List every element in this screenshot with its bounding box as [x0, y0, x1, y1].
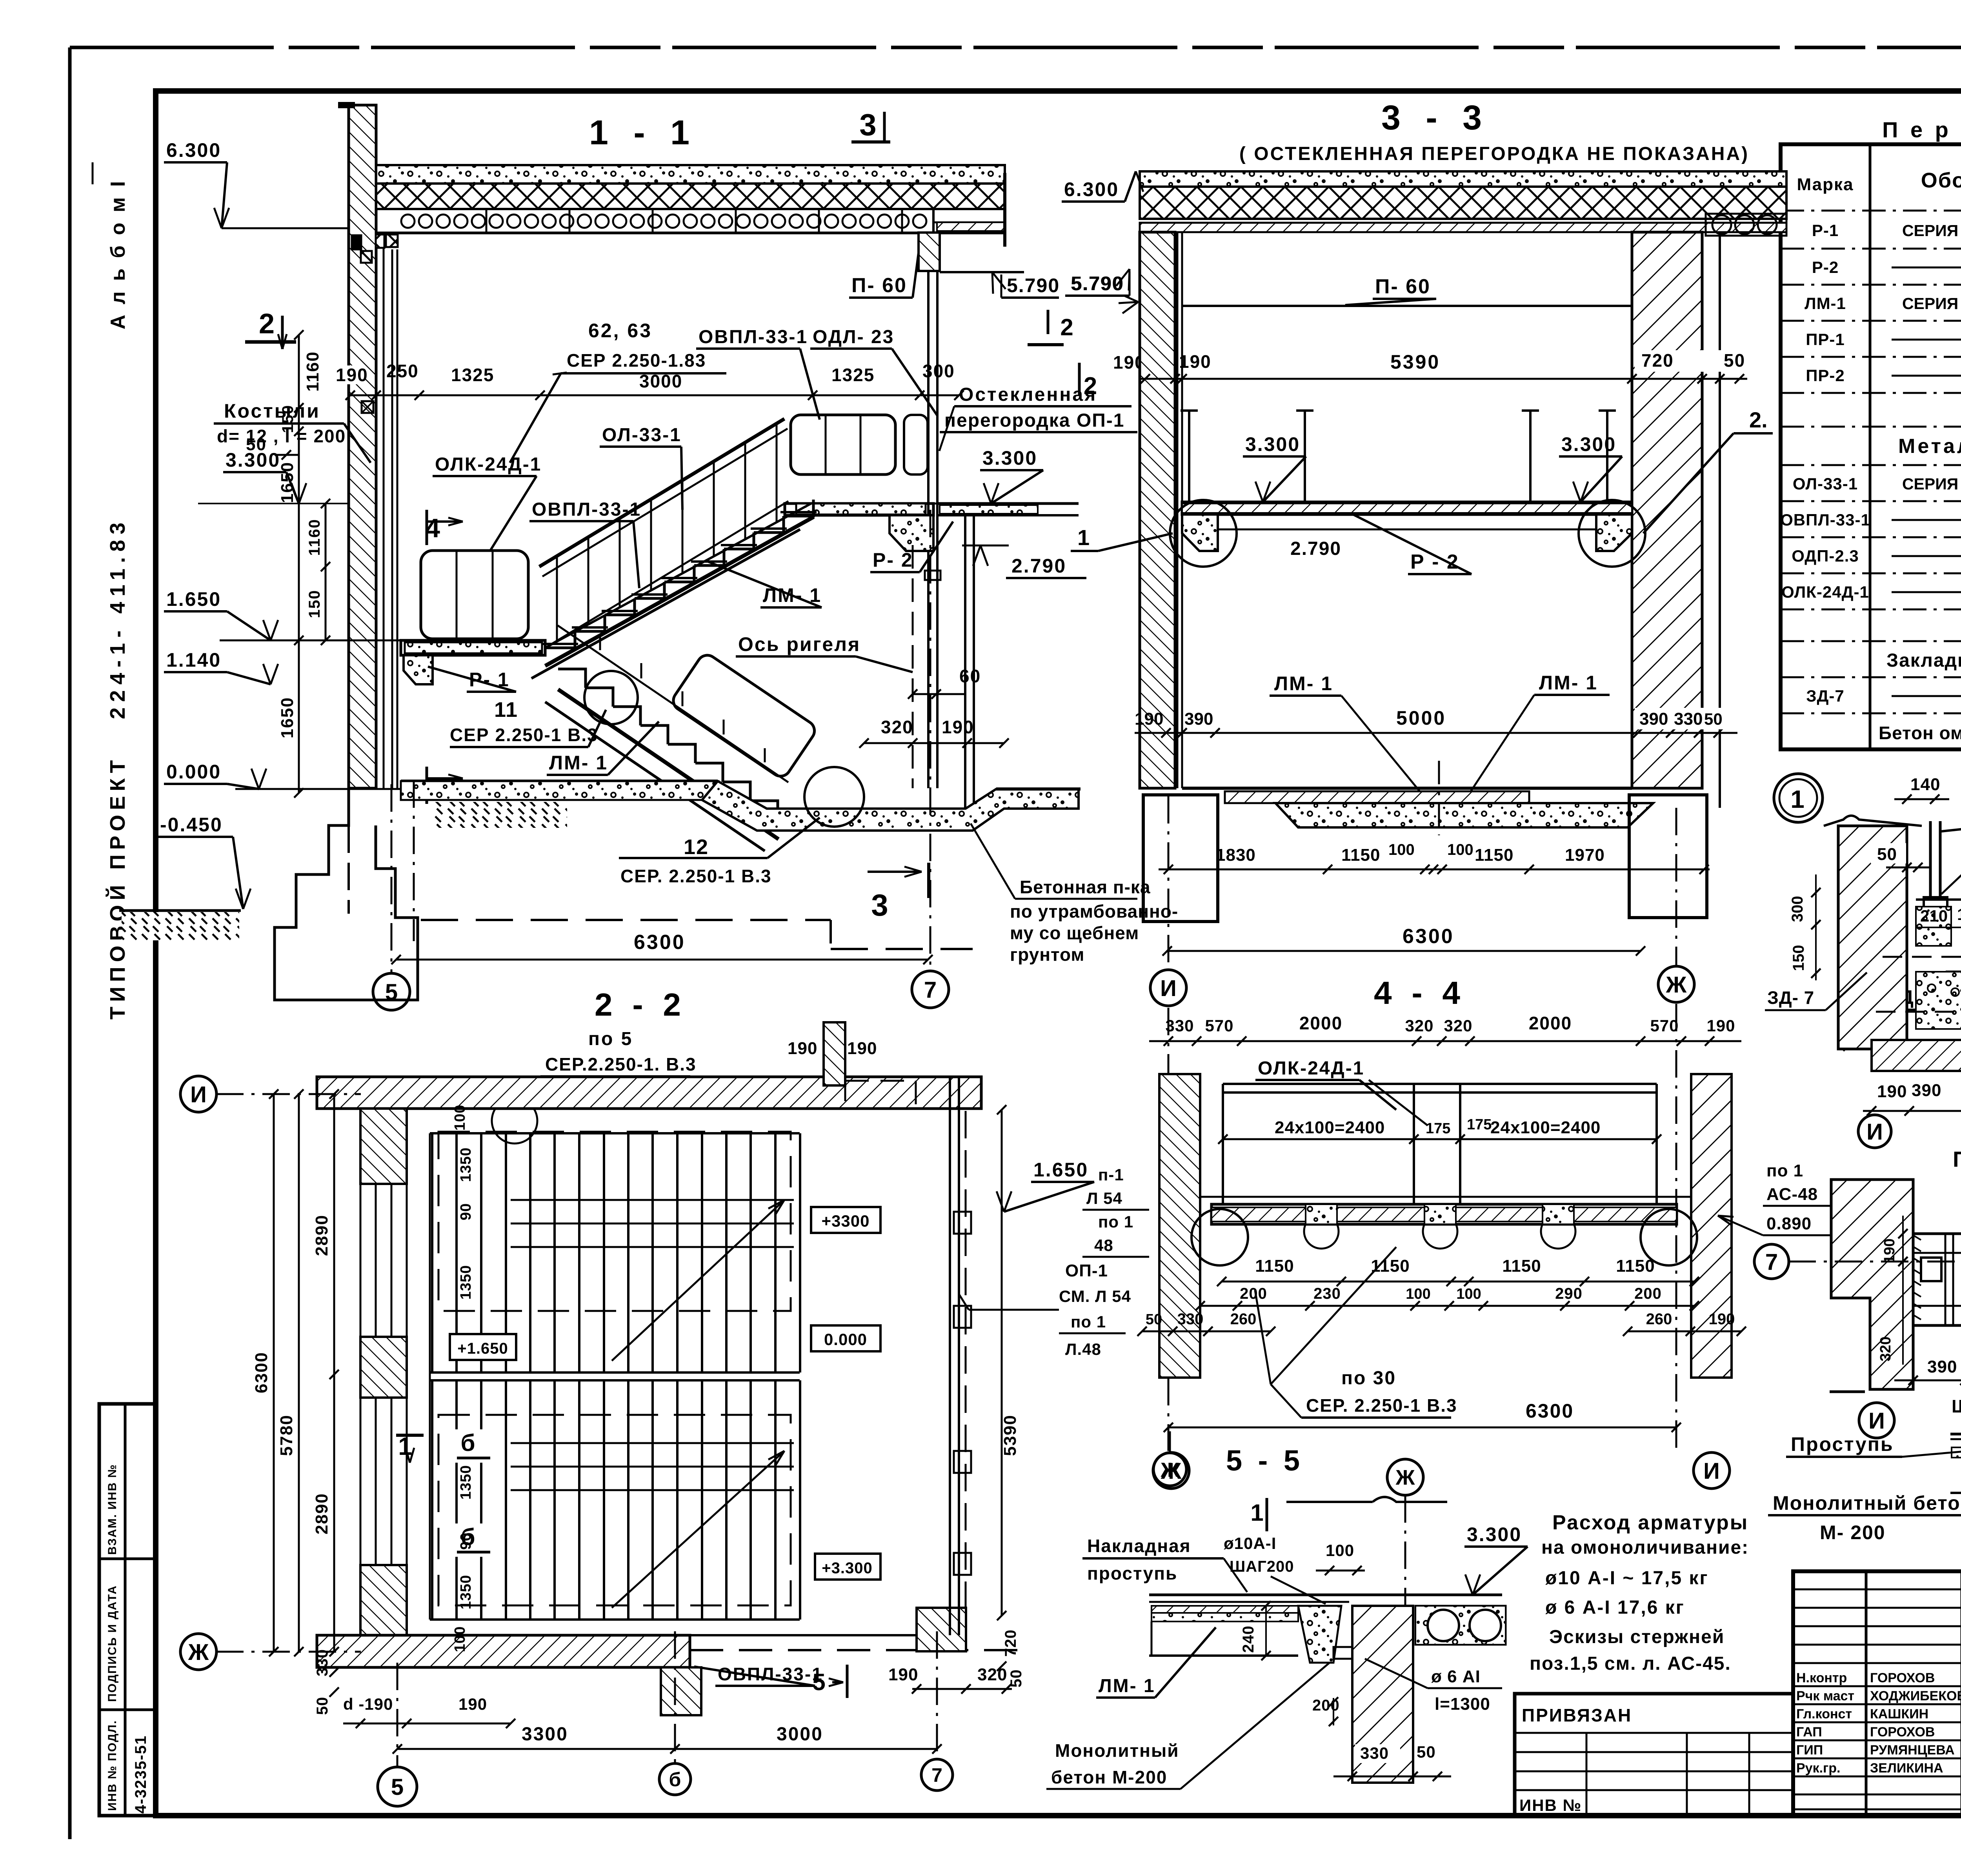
svg-text:СМ. Л 54: СМ. Л 54	[1059, 1287, 1131, 1305]
section 1-1 top slab insulation crosshatch	[376, 184, 1005, 209]
svg-text:ПР-1: ПР-1	[1806, 330, 1845, 349]
svg-text:100: 100	[1456, 1286, 1481, 1302]
svg-text:ЗД-7: ЗД-7	[1806, 687, 1845, 705]
svg-text:Ж: Ж	[1395, 1466, 1415, 1489]
svg-text:d= 12 , l = 200: d= 12 , l = 200	[217, 426, 346, 446]
svg-text:190: 190	[1706, 1016, 1735, 1035]
svg-text:300: 300	[922, 361, 955, 381]
svg-text:250: 250	[386, 361, 419, 381]
sec2 beam lines upper	[511, 1199, 794, 1201]
svg-text:ОДЛ- 23: ОДЛ- 23	[813, 327, 894, 347]
sec2 right boundary lines	[949, 1077, 951, 1635]
node1 ODP plate vertical	[1929, 821, 1932, 900]
sec5 wall below	[1352, 1606, 1413, 1783]
dim 6300 sec3	[1167, 950, 1641, 952]
svg-text:1150: 1150	[1341, 845, 1380, 865]
svg-text:на омоноличивание:: на омоноличивание:	[1541, 1537, 1749, 1558]
sec2 axis 7 line	[936, 1631, 938, 1759]
svg-text:И: И	[1868, 1408, 1885, 1434]
svg-text:1: 1	[1790, 785, 1806, 813]
svg-text:l=1300: l=1300	[1435, 1694, 1490, 1714]
sec5 small anchor	[1333, 1647, 1357, 1659]
plank joints	[486, 209, 488, 233]
sec2 axis circle 5	[378, 1767, 417, 1806]
svg-text:+1.650: +1.650	[457, 1340, 508, 1357]
sec2 partition dashed right	[965, 1111, 967, 1608]
section 1-1 ceiling line	[376, 232, 1005, 234]
section 1-1 top slab concrete screed	[376, 165, 1005, 184]
svg-text:1350: 1350	[458, 1575, 474, 1610]
node1 pocket stipple lower	[1916, 972, 1961, 1029]
svg-text:СЕР 2.250-1 В.3: СЕР 2.250-1 В.3	[450, 725, 598, 745]
svg-text:Гл.конст: Гл.конст	[1796, 1707, 1852, 1721]
axis circle 5 sec1	[373, 973, 410, 1010]
svg-text:И: И	[1703, 1458, 1720, 1484]
svg-text:5 - 5: 5 - 5	[1226, 1444, 1304, 1477]
upper flight railing balusters	[556, 556, 558, 642]
svg-text:1650: 1650	[278, 462, 297, 503]
sec2 axis circle 7	[921, 1759, 953, 1791]
svg-text:ГИП: ГИП	[1796, 1743, 1823, 1758]
section 3-3 slab crosshatch	[1140, 187, 1786, 219]
svg-text:7: 7	[924, 977, 937, 1003]
section 3-3 left wall	[1140, 232, 1175, 788]
svg-text:24х100=2400: 24х100=2400	[1275, 1118, 1385, 1137]
node1 dashed lines	[1883, 956, 1961, 958]
svg-text:240: 240	[1240, 1625, 1257, 1653]
parts table row lines	[1781, 210, 1961, 212]
sec5 right hollow core	[1415, 1606, 1506, 1645]
svg-text:190: 190	[1881, 1238, 1898, 1263]
svg-text:М- 200: М- 200	[1820, 1522, 1886, 1543]
svg-text:Остекленная: Остекленная	[959, 384, 1097, 405]
sec4 landing slab	[1212, 1204, 1677, 1224]
svg-text:3.300: 3.300	[1561, 433, 1616, 455]
svg-text:ПОДПИСЬ И ДАТА: ПОДПИСЬ И ДАТА	[106, 1585, 119, 1702]
lower stair flight steps	[558, 669, 586, 688]
sec4 axis I line	[1168, 1008, 1170, 1451]
sec2 level box 3.300	[815, 1554, 880, 1580]
outer page border left	[68, 47, 72, 1839]
title block bottom dotted edge	[156, 1814, 1961, 1818]
svg-text:3: 3	[871, 888, 890, 922]
beam R-2 support block	[890, 515, 933, 551]
svg-text:100: 100	[452, 1626, 468, 1652]
sec4 axis Zh line	[1675, 1004, 1677, 1451]
plan7 axis line left	[1788, 1261, 1961, 1263]
svg-text:ЛМ-1: ЛМ-1	[1805, 294, 1846, 313]
axis circle 7 plan left	[1754, 1244, 1789, 1279]
svg-text:-0.450: -0.450	[160, 814, 223, 836]
sec5 top break line	[1286, 1501, 1373, 1503]
sec2 top right dashed	[845, 1081, 916, 1109]
dims 390 330 50 sec3 bottom right	[1635, 708, 1725, 729]
svg-text:190: 190	[1877, 1082, 1907, 1101]
sec2 top wall	[317, 1077, 981, 1109]
svg-text:50: 50	[1704, 710, 1723, 728]
svg-text:11: 11	[494, 698, 518, 722]
svg-text:1160: 1160	[306, 519, 323, 556]
svg-text:3 - 3: 3 - 3	[1381, 98, 1490, 137]
sec4 end detail circle right	[1641, 1209, 1697, 1265]
svg-text:320: 320	[977, 1665, 1007, 1684]
svg-text:Р-2: Р-2	[1812, 258, 1839, 276]
svg-text:СЕРИЯ 1.020-1 вып. 8-1: СЕРИЯ 1.020-1 вып. 8-1	[1902, 475, 1961, 493]
svg-text:0.000: 0.000	[166, 761, 221, 783]
axis line 7 sec1	[930, 510, 931, 970]
svg-text:4 - 4: 4 - 4	[1374, 975, 1466, 1011]
section 3-3 slab stipple	[1140, 171, 1786, 187]
svg-text:320: 320	[881, 717, 913, 737]
svg-text:330: 330	[1360, 1744, 1389, 1762]
svg-text:П- 60: П- 60	[1375, 275, 1431, 298]
kostyl spike lower	[362, 401, 373, 413]
soil hatch far left	[122, 912, 239, 940]
sec5 axis circle Zh left	[1153, 1453, 1186, 1486]
svg-text:6.300: 6.300	[166, 139, 221, 161]
sec4 dims 50 330 260 row	[1142, 1331, 1271, 1332]
svg-text:ø10А-I: ø10А-I	[1224, 1534, 1276, 1552]
svg-text:50: 50	[314, 1697, 331, 1715]
sec2 walk arrow down	[612, 1451, 784, 1608]
stamp divider h2	[99, 1709, 155, 1711]
svg-text:2: 2	[1084, 373, 1099, 400]
svg-text:ШАГ200: ШАГ200	[1230, 1558, 1294, 1575]
railing panel lower flight	[669, 651, 819, 780]
svg-text:5000: 5000	[1396, 707, 1446, 729]
sec2 left wall window lines lower	[375, 1398, 377, 1565]
svg-text:4-3235-51: 4-3235-51	[132, 1735, 149, 1814]
svg-text:190: 190	[942, 717, 974, 737]
sec5 joint wedge	[1298, 1606, 1341, 1663]
sec4 end detail circle left	[1192, 1209, 1248, 1265]
glazed partition OP-1 vertical lines	[927, 271, 930, 788]
svg-text:ЛМ- 1: ЛМ- 1	[549, 752, 608, 774]
svg-text:ГАП: ГАП	[1796, 1725, 1822, 1740]
svg-text:210: 210	[1920, 907, 1948, 925]
svg-text:Рук.гр.: Рук.гр.	[1796, 1761, 1840, 1776]
svg-text:48: 48	[1094, 1236, 1113, 1254]
svg-text:3: 3	[859, 107, 878, 142]
svg-text:Обозначения: Обозначения	[1921, 169, 1961, 192]
svg-text:5.790: 5.790	[1071, 273, 1124, 294]
sec2 level box 0.000	[811, 1325, 880, 1351]
axis circle I mid right	[1858, 1115, 1891, 1148]
title block personnel rows	[1793, 1589, 1961, 1591]
privyazan box frame	[1515, 1694, 1793, 1816]
section 3-3 slab bottom strip	[1140, 218, 1786, 220]
title block personnel columns	[1865, 1571, 1868, 1816]
svg-text:ø 6 АI: ø 6 АI	[1431, 1667, 1481, 1686]
node1 beam outline	[1916, 900, 1961, 1004]
svg-text:1325: 1325	[831, 365, 875, 385]
railing panel small near partition	[904, 415, 928, 474]
svg-text:ПР-2: ПР-2	[1806, 366, 1845, 385]
plan7 left beam verticals	[1945, 1234, 1946, 1325]
svg-text:320: 320	[1877, 1336, 1894, 1361]
svg-text:Рчк маст: Рчк маст	[1796, 1689, 1854, 1703]
svg-text:1150: 1150	[1502, 1256, 1541, 1276]
sec4 top dim chain	[1149, 1040, 1741, 1042]
sec5 dims 330 50	[1355, 1744, 1400, 1763]
sec2 dim line treads vert	[429, 1133, 431, 1620]
axis circle I sec3	[1150, 970, 1186, 1006]
svg-text:140: 140	[1910, 775, 1940, 794]
sec2 partition posts	[954, 1212, 971, 1234]
svg-text:24х100=2400: 24х100=2400	[1490, 1118, 1601, 1137]
landing support block right	[1596, 514, 1632, 551]
sec4 left wall	[1159, 1074, 1200, 1378]
sec2 bottom stub down	[661, 1667, 701, 1715]
svg-text:И: И	[1866, 1119, 1883, 1145]
svg-text:+3300: +3300	[822, 1212, 870, 1230]
svg-text:ОВПЛ-33-1: ОВПЛ-33-1	[718, 1664, 823, 1684]
sec3 dims row 1830-1970	[1159, 869, 1710, 871]
svg-text:3000: 3000	[777, 1724, 823, 1745]
svg-text:3300: 3300	[522, 1724, 568, 1745]
svg-text:по 1: по 1	[1071, 1312, 1106, 1331]
sec2 dim rot 6300	[273, 1094, 275, 1652]
svg-text:ЛМ- 1: ЛМ- 1	[1539, 672, 1598, 694]
svg-text:390: 390	[1927, 1357, 1957, 1376]
detail circle top wall sec2	[492, 1098, 537, 1143]
sec2 bottom dim line 3300 3000	[397, 1748, 937, 1750]
svg-text:1.650: 1.650	[166, 588, 221, 610]
svg-text:Н.контр: Н.контр	[1796, 1671, 1847, 1685]
section 3-3 landing slab	[1182, 502, 1632, 514]
grade line far left	[119, 909, 241, 912]
svg-text:П- 60: П- 60	[851, 274, 907, 297]
svg-text:320: 320	[1444, 1016, 1472, 1035]
svg-text:ГОРОХОВ: ГОРОХОВ	[1870, 1725, 1935, 1740]
svg-text:бетон М-200: бетон М-200	[1051, 1767, 1167, 1787]
svg-text:Р-1: Р-1	[1812, 221, 1839, 240]
sec2 top right stub wall	[824, 1022, 845, 1085]
ground floor slab line	[401, 780, 718, 783]
sec4 dim 6300	[1168, 1427, 1676, 1429]
sec3 foundation column left	[1143, 795, 1218, 922]
svg-text:Расход арматуры: Расход арматуры	[1552, 1511, 1748, 1534]
svg-text:330: 330	[314, 1649, 331, 1676]
section 3-3 right wall outer lines	[1701, 235, 1703, 788]
svg-text:б: б	[669, 1769, 681, 1791]
sec2 cut mark 6 upper	[455, 1429, 486, 1463]
svg-text:ИНВ № ПОДЛ.: ИНВ № ПОДЛ.	[106, 1720, 119, 1811]
left wall below floor	[347, 788, 350, 914]
svg-text:ХОДЖИБЕКОВ: ХОДЖИБЕКОВ	[1870, 1689, 1961, 1703]
svg-text:б: б	[460, 1430, 477, 1456]
privyazan box columns	[1586, 1733, 1588, 1816]
svg-text:d -190: d -190	[343, 1695, 393, 1713]
svg-text:1970: 1970	[1565, 845, 1605, 865]
svg-text:ОЛ-33-1: ОЛ-33-1	[1793, 474, 1858, 493]
svg-text:190: 190	[1135, 709, 1163, 729]
sec2 landing dashed rect upper	[438, 1132, 791, 1311]
svg-text:( ОСТЕКЛЕННАЯ ПЕРЕГОРОДКА НЕ: ( ОСТЕКЛЕННАЯ ПЕРЕГОРОДКА НЕ ПОКАЗАНА)	[1239, 144, 1749, 164]
svg-text:Закладные детали: Закладные детали	[1886, 650, 1961, 671]
svg-text:90: 90	[458, 1203, 474, 1220]
svg-text:290: 290	[1555, 1285, 1583, 1302]
sec3 ground floor	[1182, 787, 1632, 790]
sec2 left wall pier bottom	[360, 1565, 407, 1660]
stamp divider h1	[99, 1558, 155, 1560]
svg-text:100: 100	[452, 1105, 468, 1131]
svg-text:ЛМ- 1: ЛМ- 1	[1099, 1676, 1155, 1696]
sec4 axis circle Zh bottom	[1153, 1452, 1189, 1489]
sec2 axis Zh line	[216, 1651, 361, 1653]
svg-text:по утрамбованно-: по утрамбованно-	[1010, 901, 1178, 922]
beam P-60 soffit line sec3	[1182, 305, 1632, 307]
stamp divider vertical	[124, 1404, 127, 1816]
svg-text:3.300: 3.300	[1467, 1523, 1522, 1545]
lower flight railing lines	[558, 625, 788, 782]
svg-text:6.300: 6.300	[1064, 178, 1119, 200]
sec2 dim rot 5780	[298, 1094, 300, 1652]
section 3-3 right wall	[1632, 232, 1702, 788]
wall layer caps below slab	[352, 235, 361, 249]
svg-text:2890: 2890	[312, 1493, 331, 1534]
sec5 left slab tread strip	[1151, 1606, 1298, 1622]
node1 dims 300 150 rot	[1815, 874, 1817, 980]
svg-text:Костыли: Костыли	[224, 400, 320, 422]
plan7 left beam	[1913, 1234, 1961, 1325]
dims 720 50 sec3	[1635, 350, 1748, 372]
svg-text:по 1: по 1	[1766, 1161, 1803, 1180]
svg-text:190: 190	[788, 1039, 817, 1058]
node1 small circles in pocket	[1928, 984, 1936, 992]
railing panel on landing OLK-24D-1	[421, 551, 528, 639]
sec4 railing posts	[1222, 1084, 1224, 1204]
svg-text:0.000: 0.000	[824, 1330, 867, 1349]
svg-text:Ж: Ж	[188, 1640, 209, 1665]
sec6 left tread strip	[1952, 1447, 1961, 1458]
soil hatch under floor	[434, 802, 567, 828]
svg-text:поз.1,5 см. л. АС-45.: поз.1,5 см. л. АС-45.	[1530, 1653, 1731, 1674]
svg-text:50: 50	[1724, 350, 1745, 371]
svg-text:100: 100	[1447, 841, 1473, 858]
dim 6300 bottom sec1	[396, 959, 928, 961]
svg-text:Эскизы стержней: Эскизы стержней	[1549, 1627, 1725, 1647]
svg-text:по 30: по 30	[1341, 1368, 1396, 1389]
svg-text:2.: 2.	[1749, 407, 1768, 432]
svg-text:Р- 2: Р- 2	[873, 549, 913, 571]
sec2 left wall window lines upper	[375, 1184, 377, 1337]
svg-text:1150: 1150	[1371, 1256, 1410, 1276]
svg-text:390: 390	[1912, 1081, 1941, 1100]
sec4 baluster dim line	[1223, 1138, 1657, 1140]
svg-text:1 - 1: 1 - 1	[589, 113, 697, 152]
node1 wall top break	[1824, 816, 1922, 826]
svg-text:200: 200	[1634, 1285, 1662, 1302]
landing slab 3.300	[785, 504, 933, 515]
sec2 cut mark 6 lower	[455, 1523, 486, 1557]
svg-text:ИНВ №: ИНВ №	[1519, 1796, 1582, 1814]
sec2 landing dashed rect lower	[438, 1415, 791, 1605]
svg-text:ОВПЛ-33-1: ОВПЛ-33-1	[1780, 511, 1870, 529]
sec4 railing top rail	[1223, 1083, 1657, 1085]
svg-text:СЕРИЯ 1.020-1 вып. 3-1: СЕРИЯ 1.020-1 вып. 3-1	[1902, 222, 1961, 240]
svg-text:390: 390	[1184, 709, 1213, 729]
svg-text:190: 190	[1179, 351, 1212, 372]
sec4 dims 1150 row	[1222, 1281, 1694, 1283]
svg-text:Бетон омоноличивания: Бетон омоноличивания	[1879, 723, 1961, 743]
svg-text:720: 720	[1641, 350, 1674, 371]
svg-text:АС-48: АС-48	[1766, 1185, 1818, 1204]
svg-text:РУМЯНЦЕВА: РУМЯНЦЕВА	[1870, 1743, 1955, 1758]
detail circle on flight	[584, 671, 638, 724]
sec2 stair treads upper flight	[431, 1133, 433, 1372]
svg-text:5: 5	[385, 980, 398, 1005]
dim 5390 sec3	[1140, 378, 1632, 380]
svg-text:5390: 5390	[1001, 1414, 1020, 1456]
title block personnel table frame	[1793, 1571, 1961, 1816]
detail callout circle 1 left	[1170, 500, 1237, 567]
sec2 axis I line	[216, 1093, 361, 1095]
svg-text:Марка: Марка	[1797, 175, 1854, 194]
svg-text:ø 6 А-I 17,6 кг: ø 6 А-I 17,6 кг	[1545, 1597, 1685, 1618]
upper stair flight LM-1 steps	[545, 631, 575, 648]
axis line I sec3	[1168, 796, 1170, 969]
outer page border top	[70, 46, 1961, 49]
section 1-1 top slab hollow core planks	[376, 209, 933, 233]
sec4 axis circle I bottom	[1694, 1452, 1730, 1489]
sec3 stipple trench	[1275, 803, 1653, 827]
svg-text:2: 2	[1060, 314, 1075, 340]
svg-text:2 - 2: 2 - 2	[595, 987, 686, 1023]
svg-text:100: 100	[1406, 1286, 1430, 1302]
svg-text:п-1: п-1	[1098, 1165, 1124, 1184]
level line 5.790	[940, 271, 1024, 273]
node1 plate base	[1924, 897, 1947, 907]
svg-text:7: 7	[931, 1764, 942, 1786]
foundation axis dash-dot	[413, 780, 415, 941]
sec2 dim rot 330 50	[329, 1667, 339, 1677]
svg-text:330: 330	[1674, 709, 1703, 729]
svg-text:СЕР.2.250-1. В.3: СЕР.2.250-1. В.3	[545, 1054, 697, 1074]
svg-text:0.890: 0.890	[1766, 1214, 1812, 1233]
upper flight railing bottom line	[545, 501, 788, 648]
svg-text:320: 320	[1405, 1016, 1433, 1035]
svg-text:330: 330	[1165, 1016, 1194, 1035]
detail callout circle 2 right	[1579, 500, 1645, 567]
svg-text:175: 175	[1467, 1116, 1492, 1133]
sec2 dim rot 2890 upper	[333, 1094, 335, 1374]
sec3 foundation column right	[1629, 795, 1707, 918]
svg-text:1350: 1350	[458, 1465, 474, 1500]
svg-text:570: 570	[1650, 1016, 1679, 1035]
sec4 support circles	[1304, 1214, 1339, 1249]
sec2 axis circle 6	[659, 1763, 691, 1795]
sec5 left slab body	[1149, 1654, 1298, 1657]
svg-text:3.300: 3.300	[1245, 433, 1300, 455]
sec2 dim rot 5390 right	[1001, 1110, 1003, 1616]
svg-text:5: 5	[812, 1669, 827, 1695]
svg-text:Монолитный: Монолитный	[1055, 1740, 1179, 1761]
svg-text:Л 54: Л 54	[1086, 1189, 1122, 1207]
svg-text:+3.300: +3.300	[822, 1560, 872, 1577]
plan7 left wall bottom ledge	[1830, 1391, 1865, 1393]
floor dip under flight	[702, 781, 1079, 831]
plan7 left beam anchor	[1921, 1258, 1941, 1281]
axis circle Zh sec3	[1658, 966, 1694, 1002]
sec2 level box +3300	[811, 1207, 880, 1233]
svg-text:1150: 1150	[1255, 1256, 1294, 1276]
svg-text:1150: 1150	[1475, 845, 1513, 865]
detail circle 12	[804, 767, 864, 827]
svg-text:5390: 5390	[1390, 351, 1440, 373]
sec2 axis 6 line	[674, 1631, 676, 1763]
upper flight stringer	[545, 517, 814, 666]
